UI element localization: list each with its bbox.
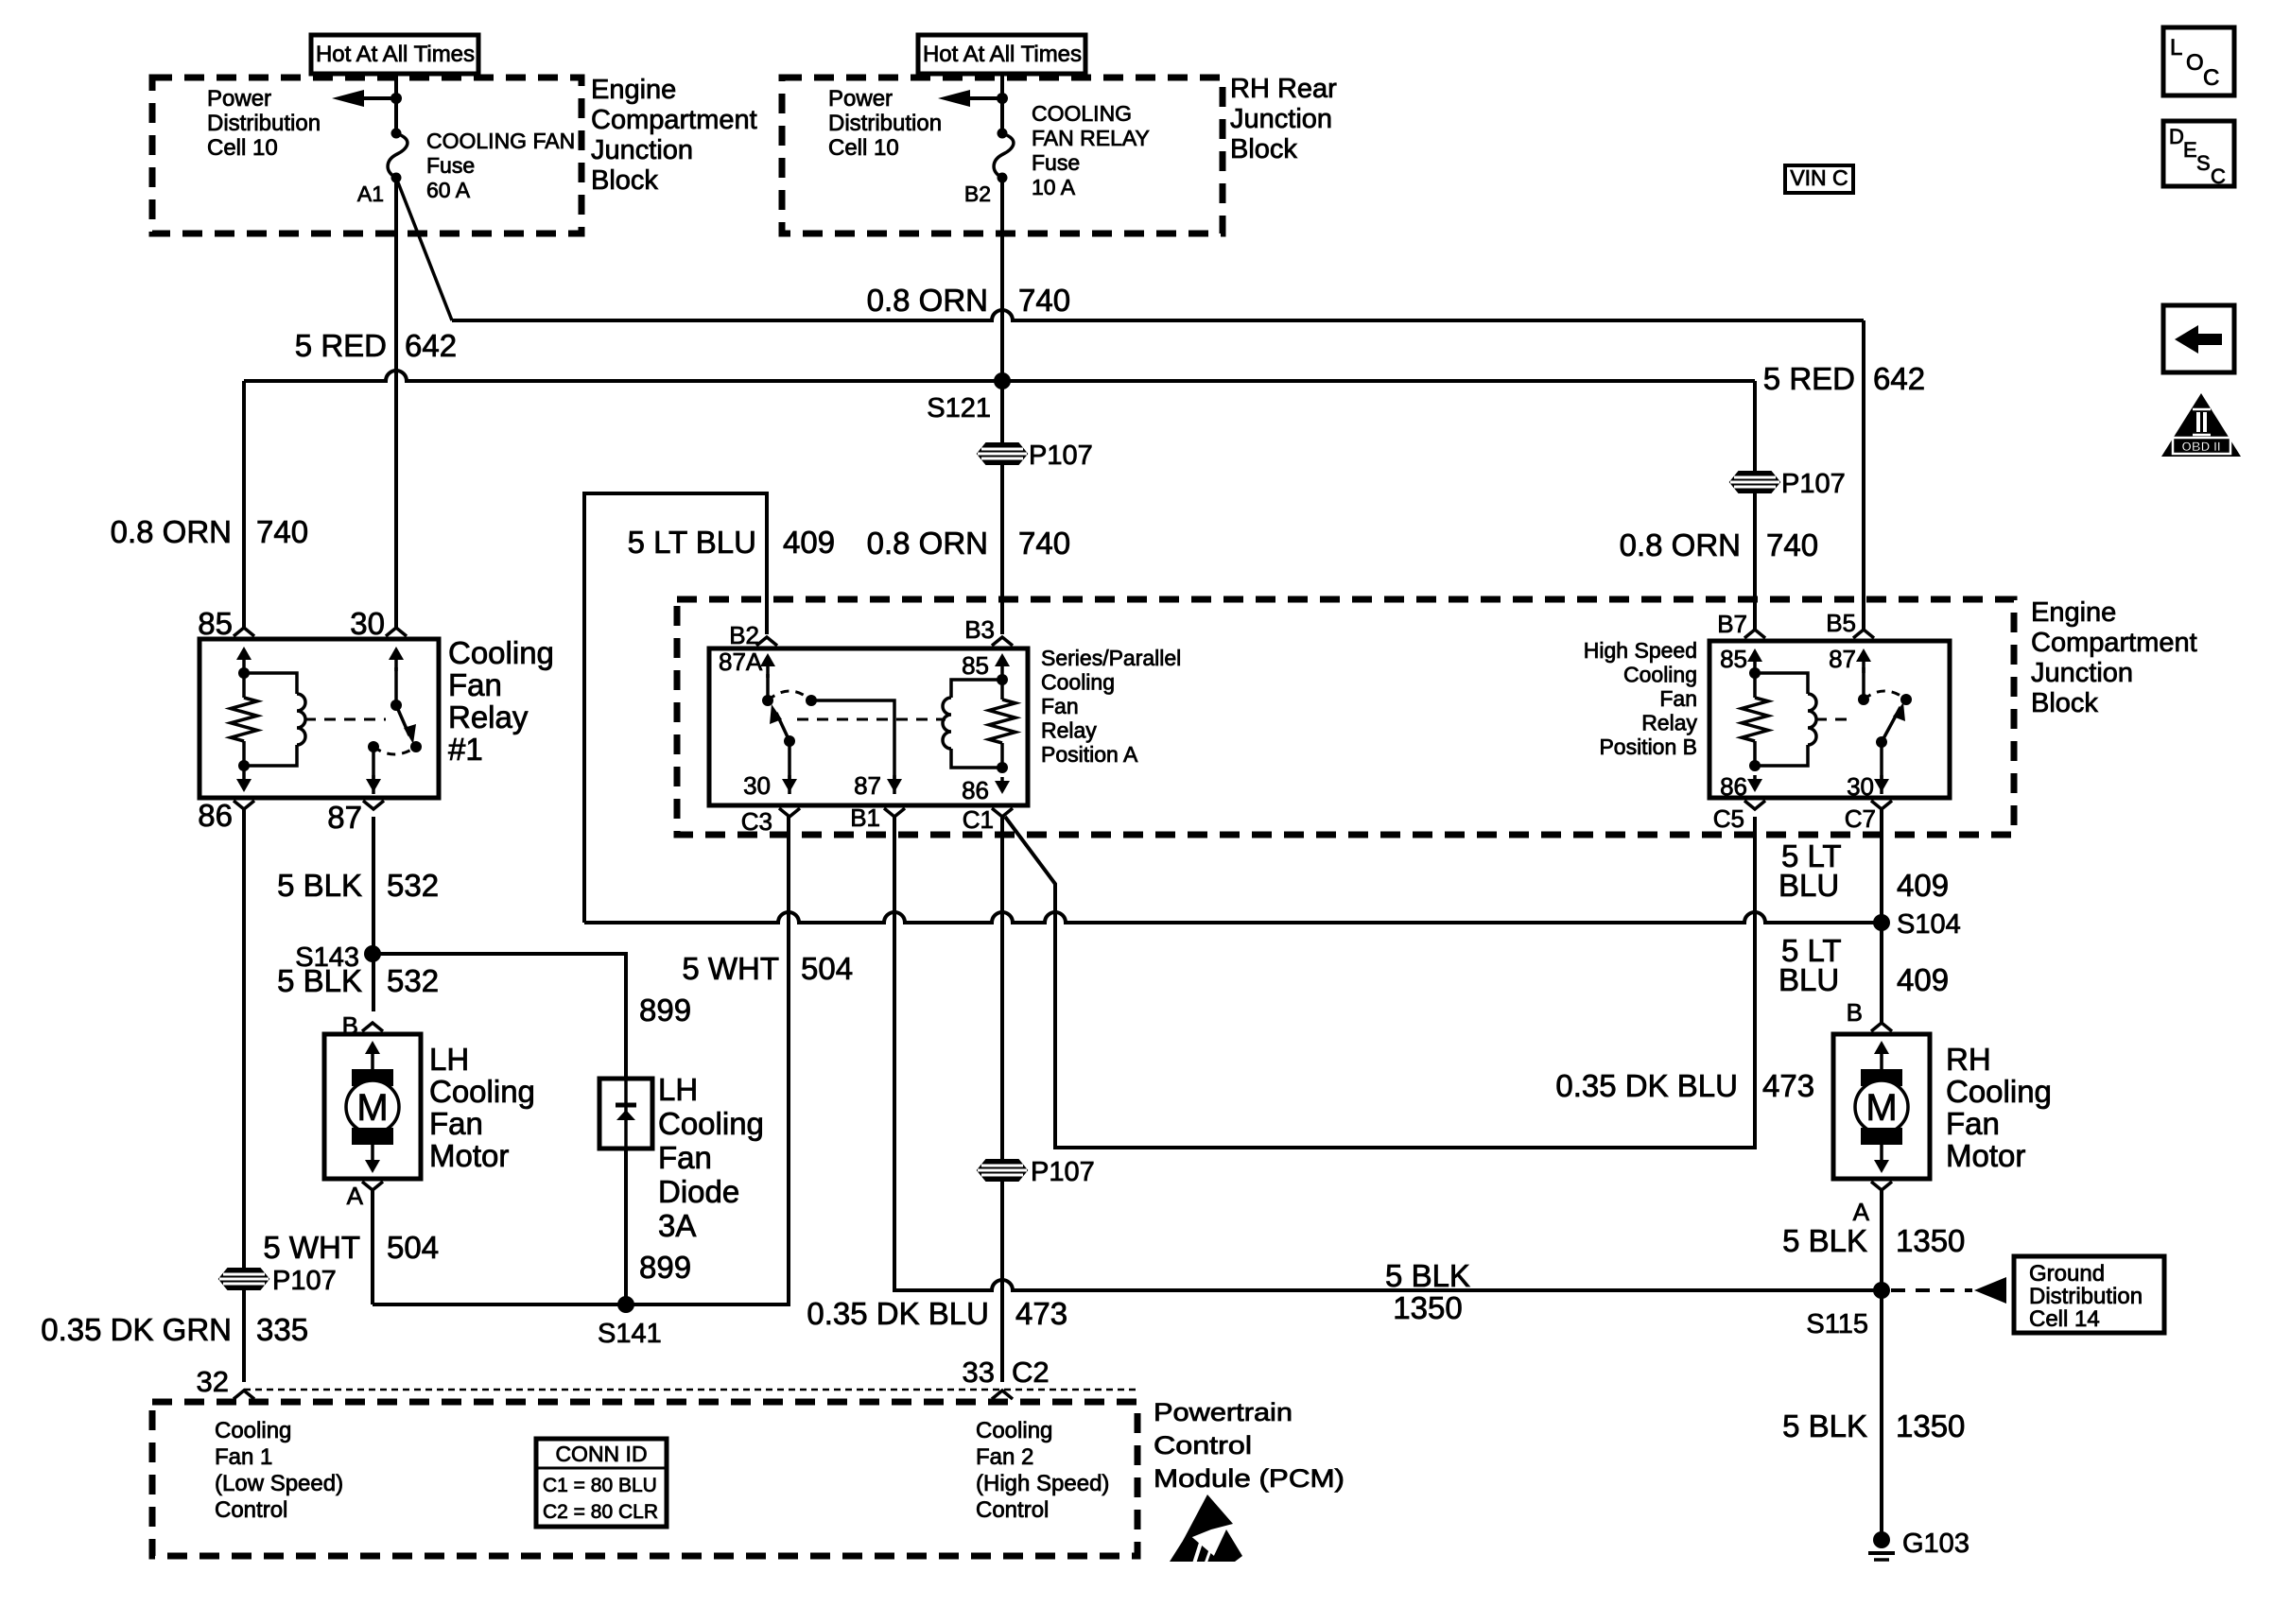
wire: 5 RED 642 diagonal from fuse A1 to top bus: [396, 178, 452, 320]
relay A coil bottom node: [997, 762, 1008, 773]
dotted connector face line C2: [244, 1389, 1137, 1391]
connector P107 (left): [219, 1269, 269, 1289]
svg-text:0.8 ORN: 0.8 ORN: [867, 283, 988, 318]
svg-text:5 WHT: 5 WHT: [263, 1230, 360, 1265]
svg-text:Fan: Fan: [429, 1106, 483, 1141]
svg-text:(High Speed): (High Speed): [976, 1471, 1109, 1496]
svg-text:409: 409: [1897, 868, 1949, 903]
svg-text:Control: Control: [215, 1497, 287, 1523]
wire: 5 BLK 1350 from S115 to G103: [1880, 1290, 1883, 1540]
svg-text:Engine: Engine: [2031, 597, 2116, 628]
connector P107 (middle): [978, 443, 1027, 464]
wire: 0.8 ORN 740 from fuse B2 through S121 and P107 to relay A pin B3: [1000, 178, 1004, 634]
svg-text:32: 32: [197, 1365, 229, 1398]
svg-text:Relay: Relay: [1641, 711, 1697, 735]
svg-text:P107: P107: [1781, 469, 1846, 499]
wire: 5 RED 642 right vertical down to relay B5: [1862, 320, 1865, 630]
relay B pin 85 arrow: [1753, 652, 1757, 673]
wire: relay1 87 to box edge: [372, 747, 375, 794]
relay1 coil top node: [238, 667, 250, 679]
svg-text:B1: B1: [850, 803, 880, 832]
node: feed junction dot (right): [997, 93, 1008, 104]
connector P107 (lower middle): [978, 1160, 1027, 1181]
pin connector: relay A B1: [884, 808, 905, 817]
svg-text:85: 85: [962, 651, 989, 680]
svg-text:87: 87: [327, 800, 362, 835]
svg-text:Distribution: Distribution: [828, 111, 942, 136]
svg-text:M: M: [1865, 1087, 1897, 1129]
svg-text:Module (PCM): Module (PCM): [1154, 1464, 1345, 1493]
svg-text:5 BLK: 5 BLK: [277, 963, 362, 998]
svg-text:B5: B5: [1826, 609, 1856, 637]
node S104: [1873, 914, 1890, 931]
resistor: relay1 internal resistor: [231, 698, 257, 741]
svg-text:532: 532: [387, 868, 439, 903]
svg-text:Fuse: Fuse: [1032, 150, 1080, 175]
power distribution arrow (right): [970, 96, 1002, 100]
svg-text:1350: 1350: [1896, 1223, 1965, 1258]
relay A coil top node: [997, 674, 1008, 685]
svg-text:Block: Block: [591, 165, 658, 196]
svg-text:S: S: [2196, 151, 2211, 175]
svg-text:RH Rear: RH Rear: [1230, 74, 1337, 104]
svg-text:C: C: [2203, 65, 2219, 91]
relay: Cooling Fan Relay #1 box: [200, 639, 439, 798]
svg-text:87: 87: [854, 771, 881, 800]
svg-text:B3: B3: [964, 615, 995, 644]
svg-text:0.8 ORN: 0.8 ORN: [867, 526, 988, 561]
relay B coil top node: [1749, 667, 1761, 679]
wire: 0.8 ORN 740 left branch down to relay1 pin 85: [242, 381, 246, 628]
dashed actuation link relay A: [797, 718, 946, 721]
svg-text:30: 30: [350, 606, 385, 641]
relay A pin 86 arrow: [1000, 777, 1004, 790]
svg-text:Block: Block: [2031, 688, 2098, 718]
svg-text:740: 740: [256, 514, 308, 549]
wire: relay A 87 jumper from bridge to pin 87: [811, 700, 894, 794]
pin connector: PCM 33: [992, 1391, 1013, 1399]
svg-text:Relay: Relay: [1041, 718, 1097, 743]
svg-text:Motor: Motor: [429, 1138, 509, 1173]
relay1 pin 85 arrow: [242, 650, 246, 671]
svg-text:5 WHT: 5 WHT: [682, 951, 779, 986]
svg-text:Fan: Fan: [1946, 1106, 2000, 1141]
pin connector: relay1 85: [234, 628, 254, 636]
svg-text:1350: 1350: [1393, 1290, 1462, 1325]
icon: OBD II triangle: [2161, 393, 2241, 457]
svg-text:Cooling: Cooling: [658, 1106, 764, 1141]
svg-text:S141: S141: [598, 1319, 662, 1349]
pin connector: RH motor B: [1871, 1023, 1892, 1031]
dashed travel arc relay B: [1864, 691, 1906, 700]
svg-text:Compartment: Compartment: [2031, 628, 2197, 658]
svg-text:M: M: [356, 1087, 388, 1129]
diode: LH Cooling Fan Diode box: [599, 1079, 652, 1149]
pin connector: relay A C3: [779, 808, 800, 817]
switch: relay A movable blade: [776, 713, 789, 741]
wire: RH motor A down to S115: [1880, 1190, 1883, 1290]
pin connector: PCM 32: [234, 1391, 254, 1399]
wire: 5 RED 642 top horizontal A1 to B5 corner: [452, 310, 1864, 320]
node S141: [617, 1296, 634, 1313]
svg-text:Powertrain: Powertrain: [1154, 1398, 1293, 1426]
svg-text:Position A: Position A: [1041, 742, 1138, 767]
fuse: COOLING FAN RELAY Fuse 10 A: [998, 129, 1008, 139]
icon: DESC box: [2163, 121, 2234, 186]
svg-text:899: 899: [639, 1250, 691, 1285]
table: CONN ID: [536, 1439, 667, 1527]
switch: relay B movable blade: [1882, 707, 1900, 742]
svg-text:Cooling: Cooling: [1623, 663, 1697, 687]
pin connector: relay A B3: [992, 637, 1013, 646]
wire: relay A 30 to box edge: [788, 741, 791, 794]
svg-text:642: 642: [405, 328, 457, 363]
svg-text:S115: S115: [1806, 1309, 1868, 1339]
switch: relay1 movable contact: [390, 700, 402, 711]
node S143: [364, 945, 381, 962]
svg-text:Motor: Motor: [1946, 1138, 2025, 1173]
svg-text:BLU: BLU: [1778, 868, 1839, 903]
svg-text:Fuse: Fuse: [426, 153, 475, 178]
wire: 0.35 DK BLU 473 branch from C1 to relay B C5: [1005, 817, 1755, 1148]
switch: relay A bridge dot: [806, 695, 817, 706]
relay1 coil bottom node: [238, 760, 250, 771]
svg-text:409: 409: [783, 525, 835, 560]
svg-text:Fan: Fan: [448, 667, 502, 702]
svg-text:CONN ID: CONN ID: [555, 1442, 647, 1466]
wire: relay B 30 to box edge: [1880, 742, 1883, 794]
node: feed junction dot (left): [390, 93, 402, 104]
svg-text:Control: Control: [1154, 1431, 1252, 1460]
svg-text:0.8 ORN: 0.8 ORN: [111, 514, 232, 549]
connector P107 (right): [1730, 472, 1779, 492]
svg-text:A: A: [347, 1182, 364, 1210]
svg-text:High Speed: High Speed: [1584, 638, 1697, 663]
svg-text:O: O: [2186, 50, 2204, 76]
svg-text:0.35 DK GRN: 0.35 DK GRN: [41, 1312, 232, 1347]
label box: VIN C: [1785, 165, 1853, 193]
svg-text:3A: 3A: [658, 1208, 696, 1243]
svg-text:Fan: Fan: [1659, 686, 1697, 711]
fuse: COOLING FAN Fuse 60 A: [391, 129, 402, 139]
relay1 pin 86 arrow: [242, 768, 246, 788]
svg-text:335: 335: [256, 1312, 308, 1347]
icon: LOC box: [2163, 27, 2234, 95]
dashed actuation link relay1: [304, 718, 386, 721]
svg-text:Distribution: Distribution: [2029, 1284, 2143, 1309]
svg-text:VIN C: VIN C: [1790, 165, 1848, 190]
svg-text:LH: LH: [429, 1042, 469, 1077]
wire: relay1 resistor stubs: [242, 673, 246, 698]
svg-text:Power: Power: [828, 86, 893, 112]
svg-text:Cooling: Cooling: [448, 635, 554, 670]
wire: 0.8 ORN 740 horizontal bus through S121: [244, 371, 1755, 381]
svg-text:(Low Speed): (Low Speed): [215, 1471, 343, 1496]
wire: LH motor A down to corner: [371, 1190, 374, 1304]
relay B coil bottom node: [1749, 760, 1761, 771]
dashed box: RH Rear Junction Block: [782, 78, 1223, 233]
svg-text:532: 532: [387, 963, 439, 998]
dashed box: Powertrain Control Module (PCM): [152, 1402, 1137, 1556]
switch: relay B bridge dot: [1900, 694, 1912, 705]
label box: Hot At All Times (left): [311, 35, 478, 74]
svg-text:740: 740: [1766, 527, 1818, 562]
svg-text:Series/Parallel: Series/Parallel: [1041, 646, 1181, 670]
svg-text:G103: G103: [1902, 1529, 1969, 1559]
ground G103: [1873, 1531, 1890, 1548]
label box: Ground Distribution Cell 14: [2014, 1256, 2164, 1333]
icon: back arrow box: [2163, 305, 2234, 372]
svg-text:5 RED: 5 RED: [1763, 361, 1855, 396]
wire: 0.35 DK GRN 335 from relay1 86 to PCM pin 32: [242, 809, 246, 1382]
svg-text:A: A: [1853, 1198, 1870, 1226]
svg-text:Fan: Fan: [658, 1140, 712, 1175]
svg-text:Cell 10: Cell 10: [828, 135, 899, 161]
svg-text:L: L: [2170, 35, 2182, 60]
coil: relay A winding branch: [951, 680, 1002, 698]
wire: 5 RED 642 from fuse A1 down to relay1 pin 30: [394, 178, 398, 628]
dashed box: Engine Compartment Junction Block (top left): [152, 78, 581, 233]
svg-text:P107: P107: [1029, 441, 1093, 471]
wire: 5 BLK 532 from relay1 87 to S143 and LH motor B: [372, 817, 375, 1011]
svg-text:740: 740: [1018, 283, 1070, 318]
svg-text:B2: B2: [729, 621, 759, 649]
dashed actuation link relay B: [1815, 718, 1851, 721]
svg-text:FAN RELAY: FAN RELAY: [1032, 126, 1150, 150]
svg-text:COOLING: COOLING: [1032, 101, 1132, 126]
svg-text:C2: C2: [1012, 1356, 1050, 1389]
svg-text:C1: C1: [963, 805, 994, 834]
svg-text:P107: P107: [1031, 1157, 1095, 1187]
svg-text:BLU: BLU: [1778, 962, 1839, 997]
svg-text:5 LT BLU: 5 LT BLU: [628, 525, 756, 560]
pin connector: relay A B2: [756, 637, 777, 646]
svg-text:E: E: [2183, 138, 2197, 162]
coil: relay1 winding branch: [244, 673, 297, 694]
svg-text:Diode: Diode: [658, 1174, 739, 1209]
svg-text:85: 85: [1720, 645, 1747, 673]
motor: LH Cooling Fan Motor: [324, 1034, 421, 1179]
wire: battery feed from Hot At All Times to fuse A1: [394, 74, 398, 133]
svg-text:C3: C3: [741, 807, 772, 836]
wire: diode to S141: [624, 1149, 628, 1304]
wire: 0.8 ORN 740 right branch down to relay B pin B7: [1753, 381, 1757, 630]
svg-text:C2 = 80 CLR: C2 = 80 CLR: [543, 1501, 658, 1523]
svg-text:5 BLK: 5 BLK: [1782, 1408, 1867, 1443]
svg-text:OBD II: OBD II: [2181, 440, 2220, 454]
svg-text:Cooling: Cooling: [976, 1418, 1052, 1443]
resistor: relay A internal resistor: [989, 700, 1015, 743]
svg-text:740: 740: [1018, 526, 1070, 561]
svg-text:Power: Power: [207, 86, 271, 112]
svg-text:30: 30: [1847, 772, 1874, 801]
node S115: [1873, 1282, 1890, 1299]
svg-text:S104: S104: [1897, 909, 1961, 940]
svg-text:473: 473: [1015, 1296, 1067, 1331]
label box: Hot At All Times (right): [918, 35, 1085, 74]
coil: relay B winding branch: [1755, 673, 1808, 694]
svg-text:B: B: [1847, 998, 1863, 1027]
pin connector: LH motor A: [362, 1182, 383, 1190]
svg-text:Cooling: Cooling: [1946, 1074, 2052, 1109]
diode symbol: [624, 1079, 628, 1149]
svg-text:642: 642: [1873, 361, 1925, 396]
switch: relay A 87A contact dot: [762, 695, 773, 706]
relay: High Speed Cooling Fan Relay Position B box: [1709, 641, 1950, 798]
svg-text:5 RED: 5 RED: [295, 328, 387, 363]
svg-text:5 BLK: 5 BLK: [1782, 1223, 1867, 1258]
switch: relay A pin 30 dot: [784, 735, 795, 747]
svg-text:S121: S121: [927, 393, 991, 423]
pin connector: relay1 30: [386, 628, 407, 636]
relay1 pin 30 entry arrow: [394, 650, 398, 671]
svg-text:Position B: Position B: [1599, 734, 1697, 759]
svg-text:5 BLK: 5 BLK: [277, 868, 362, 903]
svg-text:5 BLK: 5 BLK: [1385, 1258, 1470, 1293]
resistor: relay B internal resistor: [1742, 698, 1768, 741]
pin connector: relay B C7: [1871, 801, 1892, 809]
switch: relay B pin 30 dot: [1876, 736, 1887, 748]
svg-text:#1: #1: [448, 732, 483, 767]
wire: 5 BLK 1350 from relay A B1 down to S115: [894, 817, 1882, 1290]
svg-text:A1: A1: [357, 181, 384, 206]
pin connector: relay B C5: [1744, 801, 1765, 809]
pin connector: relay A C1: [992, 808, 1013, 817]
svg-text:Hot At All Times: Hot At All Times: [923, 42, 1082, 67]
svg-text:Compartment: Compartment: [591, 105, 757, 135]
pin connector: relay1 87: [363, 801, 384, 809]
svg-text:87A: 87A: [719, 648, 763, 676]
motor: RH Cooling Fan Motor: [1833, 1034, 1930, 1179]
svg-text:86: 86: [1720, 772, 1747, 801]
wire: 5 WHT 504 from relay A C3 down to S141 and LH motor: [373, 817, 789, 1304]
svg-text:Fan: Fan: [1041, 694, 1079, 718]
svg-text:Junction: Junction: [1230, 104, 1332, 134]
svg-text:Engine: Engine: [591, 75, 676, 105]
svg-text:87: 87: [1829, 645, 1856, 673]
svg-text:C1 = 80 BLU: C1 = 80 BLU: [543, 1475, 657, 1496]
svg-text:Cooling: Cooling: [215, 1418, 291, 1443]
relay A pin 87A arrow: [766, 657, 770, 678]
svg-text:0.35 DK BLU: 0.35 DK BLU: [807, 1296, 989, 1331]
svg-text:COOLING FAN: COOLING FAN: [426, 129, 575, 153]
icon: ESD sensitive symbol: [1183, 1494, 1233, 1541]
relay A pin 85 arrow: [1000, 657, 1004, 678]
svg-text:0.35 DK BLU: 0.35 DK BLU: [1555, 1068, 1738, 1103]
svg-text:60 A: 60 A: [426, 178, 471, 202]
svg-text:Control: Control: [976, 1497, 1049, 1523]
wire: 5 LT BLU 409 loop from relay A pin B2 up and around to bus: [584, 493, 767, 923]
dashed wire: S115 to Ground Distribution: [1891, 1288, 1972, 1292]
svg-text:504: 504: [387, 1230, 439, 1265]
wire: 5 LT BLU 409 from relay B C7 to RH motor B: [1880, 809, 1883, 1023]
svg-text:0.8 ORN: 0.8 ORN: [1620, 527, 1741, 562]
relay B pin 86 arrow: [1753, 775, 1757, 788]
svg-text:Junction: Junction: [591, 135, 693, 165]
svg-text:409: 409: [1897, 962, 1949, 997]
svg-text:Junction: Junction: [2031, 658, 2133, 688]
wire: 0.35 DK BLU 473 from relay A C1 down to PCM pin 33: [1000, 817, 1004, 1382]
relay B pin 87 arrow and contact: [1862, 652, 1865, 673]
dashed travel arc relay A: [768, 691, 811, 700]
svg-text:10 A: 10 A: [1032, 175, 1076, 199]
svg-text:P107: P107: [272, 1266, 337, 1296]
dashed travel arc relay1: [373, 747, 416, 754]
svg-text:86: 86: [198, 798, 233, 833]
svg-text:Cell 10: Cell 10: [207, 135, 278, 161]
svg-text:Distribution: Distribution: [207, 111, 321, 136]
svg-text:Hot At All Times: Hot At All Times: [316, 42, 475, 67]
wire: battery feed from Hot At All Times to fuse B2: [1000, 74, 1004, 133]
node S121: [994, 372, 1011, 389]
svg-text:86: 86: [962, 776, 989, 804]
svg-text:C5: C5: [1713, 804, 1744, 833]
svg-text:D: D: [2169, 125, 2184, 148]
svg-text:1350: 1350: [1896, 1408, 1965, 1443]
wire: 5 LT BLU 409 bus horizontal to S104: [584, 912, 1882, 923]
svg-text:B2: B2: [964, 181, 991, 206]
svg-text:C7: C7: [1845, 804, 1876, 833]
pin connector: LH motor B: [362, 1023, 383, 1031]
svg-text:Fan 2: Fan 2: [976, 1444, 1033, 1470]
svg-text:Ground: Ground: [2029, 1261, 2105, 1287]
pin connector: relay B B7: [1744, 630, 1765, 638]
svg-text:B7: B7: [1717, 610, 1747, 638]
svg-text:Cell 14: Cell 14: [2029, 1306, 2100, 1332]
svg-text:Cooling: Cooling: [429, 1074, 535, 1109]
svg-text:RH: RH: [1946, 1042, 1991, 1077]
relay: Series/Parallel Cooling Fan Relay Position A box: [709, 648, 1028, 805]
pin connector: RH motor A: [1871, 1182, 1892, 1190]
svg-text:504: 504: [801, 951, 853, 986]
svg-text:899: 899: [639, 993, 691, 1028]
pin connector: relay B B5: [1853, 630, 1874, 638]
svg-text:473: 473: [1762, 1068, 1814, 1103]
svg-text:LH: LH: [658, 1072, 698, 1107]
switch contact dot relay1 87: [368, 741, 379, 752]
svg-text:Relay: Relay: [448, 700, 529, 734]
dashed box: Engine Compartment Junction Block (middle): [677, 599, 2014, 835]
power distribution arrow (left): [364, 96, 396, 100]
svg-text:Fan 1: Fan 1: [215, 1444, 272, 1470]
svg-text:33: 33: [963, 1356, 995, 1389]
svg-text:85: 85: [198, 606, 233, 641]
svg-text:Cooling: Cooling: [1041, 670, 1115, 695]
svg-text:30: 30: [743, 771, 771, 800]
svg-text:Block: Block: [1230, 134, 1297, 164]
wire: diode branch from S143 to diode: [373, 954, 626, 1079]
svg-text:C: C: [2211, 164, 2226, 188]
pin connector: relay1 86: [234, 801, 254, 809]
